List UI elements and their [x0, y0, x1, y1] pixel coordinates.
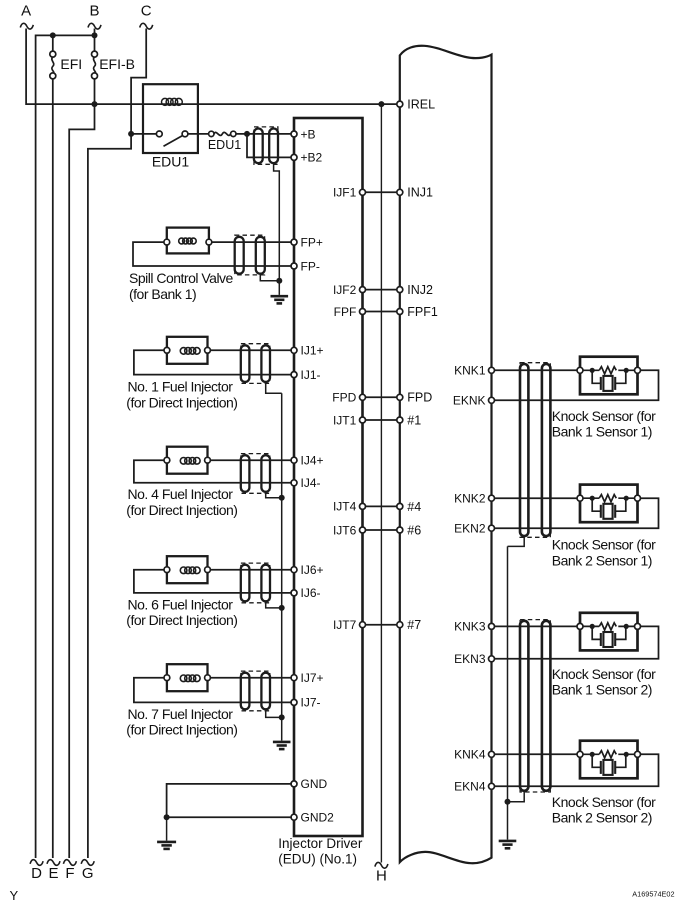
- terminal KNK4 (ECM pin): [454, 748, 494, 762]
- svg-text:#4: #4: [407, 500, 421, 514]
- label Knock Sensor (for Bank 2 Sensor 1): [552, 537, 656, 569]
- shield drain wire from IJ6 pair: [266, 601, 282, 608]
- svg-text:(for Direct Injection): (for Direct Injection): [126, 722, 237, 738]
- label No. 7 Fuel Injector (for Direct Injection): [126, 706, 237, 738]
- knock sensor 4: [577, 741, 641, 779]
- svg-text:Knock Sensor (for: Knock Sensor (for: [552, 794, 656, 810]
- svg-text:EFI: EFI: [60, 56, 82, 72]
- svg-text:KNK3: KNK3: [454, 620, 486, 634]
- terminal EKN4 (ECM pin): [454, 780, 494, 794]
- svg-text:(for Direct Injection): (for Direct Injection): [126, 612, 237, 628]
- svg-text:EKN3: EKN3: [454, 652, 486, 666]
- node Y (page marker): [10, 888, 19, 903]
- svg-text:Bank 1 Sensor 1): Bank 1 Sensor 1): [552, 424, 652, 440]
- label Knock Sensor (for Bank 1 Sensor 2): [552, 666, 656, 698]
- junction B tap: [92, 32, 98, 38]
- wire B drop through fuse row: [69, 29, 94, 859]
- terminal IJF1 (EDU pin): [333, 186, 366, 200]
- terminal IJ1- (EDU pin): [291, 368, 321, 382]
- svg-text:Spill Control Valve: Spill Control Valve: [129, 270, 234, 286]
- wire IJ1+: [210, 349, 292, 351]
- wire relay output to fuse EDU1: [188, 133, 209, 135]
- twisted pair FP ovals: [235, 237, 265, 274]
- fuse EFI: [50, 51, 82, 79]
- terminal EKN2 (ECM pin): [454, 522, 494, 536]
- svg-text:IJ6-: IJ6-: [301, 586, 321, 600]
- label Spill Control Valve (for Bank 1): [129, 270, 234, 302]
- twisted pair IJ4 ovals: [241, 455, 270, 492]
- svg-text:#1: #1: [407, 413, 421, 427]
- junction GND node: [164, 814, 170, 820]
- shield bus knock pairs: [507, 546, 509, 839]
- svg-text:Knock Sensor (for: Knock Sensor (for: [552, 666, 656, 682]
- junction C/relay node: [128, 131, 134, 137]
- svg-text:(EDU) (No.1): (EDU) (No.1): [278, 852, 357, 867]
- junction IJ7 shield node: [279, 714, 285, 720]
- twisted pair knock sensors 1/2 dashed shield box: [520, 363, 550, 538]
- svg-text:FPD: FPD: [332, 391, 356, 405]
- svg-text:Knock Sensor (for: Knock Sensor (for: [552, 537, 656, 553]
- ground for EDU: [157, 817, 176, 849]
- node G: [81, 860, 94, 882]
- node H: [375, 862, 388, 884]
- shield drain wire from IJ7 pair: [266, 709, 282, 717]
- twisted pair IJ7 dashed shield box: [241, 671, 270, 711]
- wire IJ1- loop: [134, 350, 292, 374]
- svg-text:(for Direct Injection): (for Direct Injection): [126, 502, 237, 518]
- wire EKN return 3: [495, 626, 659, 658]
- terminal FPF1 (ECM pin): [397, 305, 438, 319]
- shield bus for injector pairs: [281, 393, 283, 740]
- wire IJ6+: [210, 569, 292, 571]
- twisted pair IJ4 dashed shield box: [241, 454, 270, 494]
- terminal #7 (ECM pin): [397, 618, 421, 632]
- svg-text:IJ7+: IJ7+: [301, 671, 324, 685]
- terminal KNK1 (ECM pin): [454, 364, 494, 378]
- svg-text:INJ1: INJ1: [407, 186, 433, 200]
- svg-text:Injector Driver: Injector Driver: [278, 836, 363, 851]
- twisted pair FP dashed shield box: [235, 235, 265, 275]
- wire KNK3: [495, 625, 579, 627]
- twisted pair IJ1 dashed shield box: [241, 344, 270, 384]
- svg-text:IJ1+: IJ1+: [301, 344, 324, 358]
- svg-text:GND: GND: [301, 777, 328, 791]
- svg-text:+B2: +B2: [301, 151, 323, 165]
- drawing number A169574E02: [632, 890, 674, 899]
- svg-text:C: C: [141, 3, 152, 20]
- terminal #1 (ECM pin): [397, 413, 421, 427]
- wire IJ4- loop: [134, 460, 292, 483]
- junction IREL/H node: [378, 101, 384, 107]
- svg-text:IREL: IREL: [407, 98, 435, 112]
- terminal FP+ (EDU pin): [291, 235, 323, 249]
- svg-text:FPF1: FPF1: [407, 305, 438, 319]
- fuel injector No.6: [164, 556, 210, 583]
- shield drain wire knock pair 3/4: [508, 791, 525, 802]
- svg-text:Bank 2 Sensor 2): Bank 2 Sensor 2): [552, 810, 652, 826]
- terminal IJ7+ (EDU pin): [291, 671, 324, 685]
- terminal IJF2 (EDU pin): [333, 283, 366, 297]
- ground for +B/FP shields: [271, 281, 289, 304]
- svg-text:IJT4: IJT4: [333, 500, 357, 514]
- terminal IJ7- (EDU pin): [291, 696, 321, 710]
- svg-text:(for Bank 1): (for Bank 1): [129, 286, 196, 302]
- node C: [140, 3, 153, 30]
- terminal FP- (EDU pin): [291, 259, 320, 273]
- svg-text:Bank 2 Sensor 1): Bank 2 Sensor 1): [552, 552, 652, 568]
- terminal #4 (ECM pin): [397, 500, 421, 514]
- svg-text:#6: #6: [407, 523, 421, 537]
- wire IJF2-INJ2: [365, 289, 398, 291]
- svg-text:EDU1: EDU1: [152, 154, 190, 170]
- junction IJ4 shield node: [279, 495, 285, 501]
- junction knock shield node: [505, 799, 511, 805]
- wire EKN return 2: [495, 498, 659, 528]
- ground for knock shields: [499, 841, 517, 848]
- terminal KNK3 (ECM pin): [454, 620, 494, 634]
- knock sensor 3: [577, 613, 641, 651]
- svg-text:A: A: [21, 3, 31, 20]
- terminal GND2 (EDU pin): [291, 811, 334, 825]
- fuse EFI-B: [92, 51, 135, 79]
- wire GND2: [167, 816, 292, 818]
- wire FP+: [212, 241, 292, 243]
- wire IJT6-#6: [365, 529, 398, 531]
- terminal INJ2 (ECM pin): [397, 283, 433, 297]
- shield drain wire from IJ1 pair: [266, 382, 282, 393]
- label No. 6 Fuel Injector (for Direct Injection): [126, 596, 237, 628]
- svg-text:FPD: FPD: [407, 391, 432, 405]
- wire IJ4+: [210, 459, 292, 461]
- fuel injector No.4: [164, 447, 210, 474]
- label No. 1 Fuel Injector (for Direct Injection): [126, 379, 237, 411]
- junction fuse output node: [244, 131, 250, 137]
- label Knock Sensor (for Bank 2 Sensor 2): [552, 794, 656, 826]
- svg-text:D: D: [31, 865, 42, 882]
- junction shield drain node: [276, 278, 282, 284]
- shield drain wire from IJ4 pair: [266, 492, 282, 498]
- wire IJT7-#7: [365, 624, 398, 626]
- svg-text:IJF2: IJF2: [333, 283, 357, 297]
- svg-text:GND2: GND2: [301, 811, 335, 825]
- svg-text:Y: Y: [10, 888, 19, 903]
- wire KNK2: [495, 497, 579, 499]
- svg-text:IJT1: IJT1: [333, 413, 357, 427]
- svg-text:EKN4: EKN4: [454, 780, 486, 794]
- twisted pair knock 1/2 ovals: [520, 364, 550, 536]
- wire C branch down to G: [88, 134, 131, 858]
- svg-text:No. 4 Fuel Injector: No. 4 Fuel Injector: [128, 486, 234, 502]
- wire IREL branch down to H: [380, 104, 382, 862]
- wire IJ7+: [210, 677, 292, 679]
- svg-text:IJ4-: IJ4-: [301, 476, 321, 490]
- node D: [30, 860, 43, 882]
- shield drain wire from FP pair: [260, 274, 279, 281]
- wire C drop to relay: [131, 29, 157, 134]
- twisted pair knock sensors 3/4 dashed shield box: [520, 620, 550, 792]
- svg-text:EKNK: EKNK: [453, 394, 486, 408]
- twisted pair IJ1 ovals: [241, 345, 270, 382]
- svg-text:Knock Sensor (for: Knock Sensor (for: [552, 408, 656, 424]
- wire IJ7- loop: [134, 678, 292, 703]
- wire branch to +B2: [247, 134, 292, 158]
- terminal FPD (ECM pin): [397, 391, 433, 405]
- svg-text:FP-: FP-: [301, 259, 320, 273]
- knock sensor 2: [577, 485, 641, 523]
- svg-text:KNK1: KNK1: [454, 364, 486, 378]
- svg-text:G: G: [82, 865, 94, 882]
- svg-text:EKN2: EKN2: [454, 522, 486, 536]
- junction IJ6 shield node: [279, 605, 285, 611]
- terminal IJ4- (EDU pin): [291, 476, 321, 490]
- svg-text:#7: #7: [407, 618, 421, 632]
- knock sensor 1: [577, 357, 641, 395]
- shield drain wire knock pair 1/2: [508, 536, 525, 546]
- wire IJF1-INJ1: [365, 191, 398, 193]
- terminal IJ6+ (EDU pin): [291, 563, 324, 577]
- terminal INJ1 (ECM pin): [397, 186, 433, 200]
- wire FPD-FPD: [365, 396, 398, 398]
- terminal EKN3 (ECM pin): [454, 652, 494, 666]
- svg-text:(for Direct Injection): (for Direct Injection): [126, 394, 237, 410]
- terminal +B (EDU pin): [291, 127, 316, 141]
- svg-text:F: F: [65, 865, 74, 882]
- fuel injector No.1: [164, 337, 210, 364]
- ECM (torn-edge box): [400, 46, 492, 864]
- svg-text:INJ2: INJ2: [407, 283, 433, 297]
- svg-text:Bank 1 Sensor 2): Bank 1 Sensor 2): [552, 682, 652, 698]
- svg-text:EFI-B: EFI-B: [99, 56, 135, 72]
- junction EFI tap: [50, 32, 56, 38]
- twisted pair IJ7 ovals: [241, 673, 270, 710]
- wire KNK1: [495, 369, 579, 371]
- node A: [20, 3, 33, 30]
- terminal IREL (ECM pin): [397, 98, 435, 112]
- svg-text:IJT7: IJT7: [333, 618, 357, 632]
- svg-text:KNK4: KNK4: [454, 748, 486, 762]
- terminal IJT1 (EDU pin): [333, 413, 366, 427]
- svg-text:No. 6 Fuel Injector: No. 6 Fuel Injector: [128, 596, 234, 612]
- wire IJ6- loop: [134, 570, 292, 593]
- twisted pair +B/+B2 ovals: [254, 129, 278, 164]
- solenoid: spill control valve: [164, 228, 212, 254]
- wire A feed down and across to IREL: [26, 29, 398, 105]
- wire GND: [167, 784, 292, 817]
- terminal GND (EDU pin): [291, 777, 328, 791]
- wire EKN return 1: [495, 370, 659, 400]
- relay EDU1: [143, 84, 198, 169]
- fuel injector No.7: [164, 664, 210, 691]
- svg-text:E: E: [48, 865, 58, 882]
- twisted pair IJ6 ovals: [241, 565, 270, 602]
- svg-text:FP+: FP+: [301, 235, 323, 249]
- injector driver EDU No.1 box: [294, 118, 363, 836]
- svg-text:KNK2: KNK2: [454, 492, 486, 506]
- terminal IJ4+ (EDU pin): [291, 454, 324, 468]
- wire top bus B to D drop: [36, 35, 95, 858]
- svg-text:EDU1: EDU1: [208, 138, 241, 152]
- terminal KNK2 (ECM pin): [454, 492, 494, 506]
- svg-text:B: B: [89, 3, 99, 20]
- wire FP- loop: [133, 242, 292, 266]
- node F: [63, 860, 76, 882]
- svg-text:IJF1: IJF1: [333, 186, 357, 200]
- node B: [88, 3, 101, 30]
- twisted pair knock 3/4 ovals: [520, 621, 550, 791]
- svg-text:FPF: FPF: [334, 305, 357, 319]
- svg-text:A169574E02: A169574E02: [632, 890, 674, 899]
- wire IJT4-#4: [365, 505, 398, 507]
- terminal FPD (EDU pin): [332, 391, 365, 405]
- terminal FPF (EDU pin): [334, 305, 366, 319]
- twisted pair +B/+B2 dashed shield box: [254, 127, 278, 164]
- label Knock Sensor (for Bank 1 Sensor 1): [552, 408, 656, 440]
- twisted pair IJ6 dashed shield box: [241, 563, 270, 603]
- terminal EKNK (ECM pin): [453, 394, 495, 408]
- svg-text:IJ4+: IJ4+: [301, 454, 324, 468]
- terminal IJT4 (EDU pin): [333, 500, 366, 514]
- wire IJT1-#1: [365, 419, 398, 421]
- junction B/F node: [92, 101, 98, 107]
- terminal IJT7 (EDU pin): [333, 618, 366, 632]
- ground for injector shields: [273, 742, 291, 749]
- terminal #6 (ECM pin): [397, 523, 421, 537]
- wire fuse EDU1 to +B: [236, 133, 292, 135]
- label No. 4 Fuel Injector (for Direct Injection): [126, 486, 237, 518]
- terminal IJ1+ (EDU pin): [291, 344, 324, 358]
- shield drain wire from +B pair: [274, 163, 280, 281]
- svg-text:IJ7-: IJ7-: [301, 696, 321, 710]
- terminal IJT6 (EDU pin): [333, 523, 366, 537]
- svg-text:No. 7 Fuel Injector: No. 7 Fuel Injector: [128, 706, 234, 722]
- fuse EDU1: [208, 131, 241, 152]
- svg-text:IJ6+: IJ6+: [301, 563, 324, 577]
- node E: [47, 860, 60, 882]
- svg-text:H: H: [376, 868, 387, 885]
- terminal +B2 (EDU pin): [291, 151, 323, 165]
- wire KNK4: [495, 753, 579, 755]
- svg-text:No. 1 Fuel Injector: No. 1 Fuel Injector: [128, 379, 234, 395]
- wire EKN return 4: [495, 754, 659, 786]
- wire EFI fuse branch down to E: [52, 35, 54, 858]
- svg-text:+B: +B: [301, 127, 316, 141]
- svg-text:IJ1-: IJ1-: [301, 368, 321, 382]
- terminal IJ6- (EDU pin): [291, 586, 321, 600]
- svg-text:IJT6: IJT6: [333, 523, 357, 537]
- label Injector Driver (EDU) (No.1): [278, 836, 363, 867]
- wire FPF-FPF1: [365, 311, 398, 313]
